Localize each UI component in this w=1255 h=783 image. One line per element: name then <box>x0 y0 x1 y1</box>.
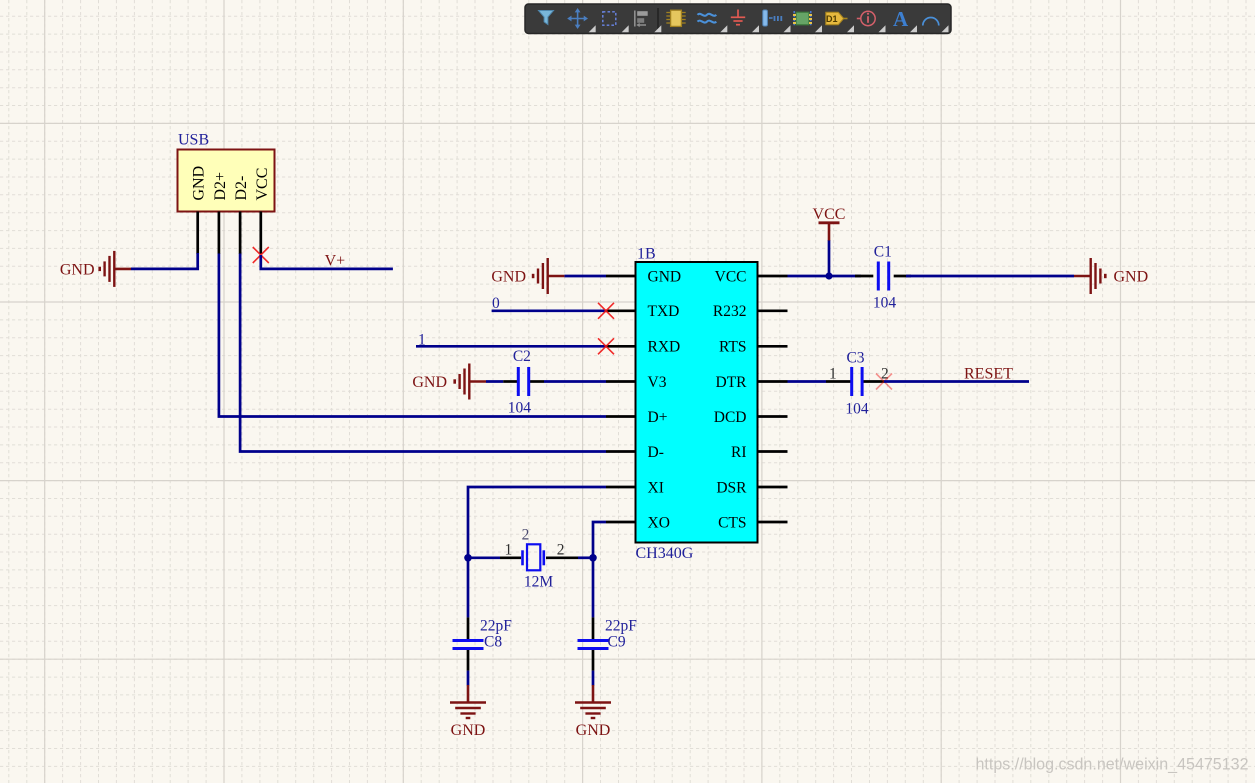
toolbar icon gnd <box>731 10 745 25</box>
svg-text:C1: C1 <box>874 244 892 261</box>
IC U1 CH340G <box>606 246 788 563</box>
wire GND of USB to ground <box>131 253 198 269</box>
svg-text:GND: GND <box>191 166 208 201</box>
wire GND pin of chip <box>564 275 606 278</box>
svg-text:XO: XO <box>648 514 670 531</box>
no-connect X on C3 pin2 <box>876 374 892 390</box>
svg-text:V+: V+ <box>325 253 346 270</box>
svg-text:GND: GND <box>491 269 526 286</box>
ground GND (earth style at 593) <box>575 685 611 739</box>
toolbar icon filter <box>539 11 554 25</box>
svg-text:1B: 1B <box>637 246 656 263</box>
connector USB <box>178 132 275 255</box>
capacitor C2 104 <box>518 367 528 396</box>
wire D2- to D- <box>240 254 606 452</box>
capacitor C9 22pF <box>578 641 609 649</box>
svg-text:GND: GND <box>60 262 95 279</box>
svg-text:D-: D- <box>648 444 664 461</box>
toolbar <box>525 4 951 34</box>
svg-text:C9: C9 <box>608 634 626 651</box>
svg-text:1: 1 <box>418 332 426 349</box>
svg-text:104: 104 <box>845 401 869 418</box>
ground GND (bar style, attach 486,381.5) <box>412 364 486 400</box>
toolbar icon arc <box>923 18 939 26</box>
wire crystal to C9 <box>592 558 595 618</box>
toolbar icon probe <box>857 11 875 25</box>
svg-text:https://blog.csdn.net/weixin_4: https://blog.csdn.net/weixin_45475132 <box>976 755 1249 774</box>
svg-text:GND: GND <box>576 722 611 739</box>
svg-text:12M: 12M <box>524 574 554 591</box>
wire VCC net <box>788 275 862 278</box>
svg-text:1: 1 <box>505 542 513 559</box>
svg-text:GND: GND <box>412 374 447 391</box>
ground GND (bar style, attach 564.4,276) <box>491 258 564 294</box>
toolbar icon select <box>603 12 616 25</box>
svg-text:GND: GND <box>1114 269 1149 286</box>
capacitor C3 104 <box>852 367 862 396</box>
svg-text:104: 104 <box>508 400 532 417</box>
svg-text:RESET: RESET <box>964 366 1013 383</box>
svg-text:D+: D+ <box>648 409 668 426</box>
svg-text:0: 0 <box>492 295 500 312</box>
svg-text:2: 2 <box>557 542 565 559</box>
svg-text:DTR: DTR <box>716 374 748 391</box>
svg-text:GND: GND <box>648 268 682 285</box>
toolbar icon sheet symbol <box>793 11 812 26</box>
power VCC <box>813 206 846 276</box>
svg-text:D1: D1 <box>826 14 838 24</box>
wire XO <box>593 522 606 558</box>
svg-text:RI: RI <box>731 444 747 461</box>
wire D2+ to D+ <box>219 254 606 417</box>
svg-text:CH340G: CH340G <box>636 545 694 562</box>
svg-text:VCC: VCC <box>254 168 271 201</box>
svg-text:22pF: 22pF <box>605 618 637 635</box>
wire net 0 (TXD) <box>492 309 606 312</box>
toolbar icon align <box>635 11 648 28</box>
wire DTR to C3 <box>788 380 827 383</box>
svg-text:D2-: D2- <box>233 176 250 201</box>
capacitor C1 104 <box>878 262 888 291</box>
wire V+ net <box>261 255 393 269</box>
toolbar icon pin <box>763 10 782 26</box>
svg-text:USB: USB <box>178 132 209 149</box>
ground GND (earth style at 468) <box>450 685 486 739</box>
junction node VCC <box>825 272 832 279</box>
svg-text:DCD: DCD <box>714 409 747 426</box>
svg-text:1: 1 <box>829 366 837 383</box>
svg-text:D2+: D2+ <box>212 172 229 201</box>
wire crystal row <box>468 556 500 559</box>
toolbar icon wire <box>698 14 717 23</box>
svg-text:TXD: TXD <box>648 303 680 320</box>
junction node XI/crystal <box>464 554 472 562</box>
svg-text:C2: C2 <box>513 348 531 365</box>
svg-text:GND: GND <box>451 722 486 739</box>
wire RESET net <box>884 380 1029 383</box>
svg-text:R232: R232 <box>713 303 747 320</box>
svg-text:VCC: VCC <box>715 268 747 285</box>
svg-text:CTS: CTS <box>718 514 746 531</box>
svg-text:V3: V3 <box>648 374 667 391</box>
svg-text:2: 2 <box>522 527 530 544</box>
wire V3 to C2 <box>486 380 503 383</box>
wire XI <box>468 487 606 558</box>
ground GND (bar style, attach 131,268.9) <box>60 251 131 287</box>
svg-text:22pF: 22pF <box>480 618 512 635</box>
wire net 1 (RXD) <box>416 345 606 348</box>
svg-text:A: A <box>893 7 909 31</box>
svg-text:RTS: RTS <box>719 339 747 356</box>
toolbar icon component <box>666 10 685 26</box>
svg-text:C8: C8 <box>484 634 502 651</box>
svg-text:RXD: RXD <box>648 339 681 356</box>
svg-text:C3: C3 <box>846 350 864 367</box>
svg-text:XI: XI <box>648 479 664 496</box>
svg-text:104: 104 <box>873 295 897 312</box>
toolbar icon crosshair <box>569 10 587 28</box>
ground GND (bar style, attach 1074,276) <box>1074 258 1148 294</box>
svg-text:VCC: VCC <box>813 206 846 223</box>
no-connect X on RXD <box>598 338 614 354</box>
svg-text:DSR: DSR <box>716 479 747 496</box>
no-connect X on USB VCC pin <box>253 247 269 263</box>
no-connect X on TXD <box>598 303 614 319</box>
toolbar icon designator <box>826 12 848 24</box>
crystal Y1 12M <box>505 527 565 591</box>
capacitor C8 22pF <box>453 641 484 649</box>
junction node XO/crystal <box>589 554 597 562</box>
wire crystal to C8 <box>467 558 470 618</box>
